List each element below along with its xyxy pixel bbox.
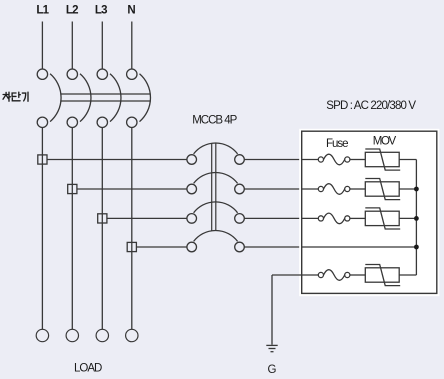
svg-text:MCCB 4P: MCCB 4P	[192, 114, 237, 126]
wire N top feed	[131, 22, 133, 69]
wire MOV1 to bus	[399, 159, 416, 161]
breaker pole L2: bottom contact circle	[67, 117, 77, 127]
junction dot row 2	[414, 187, 419, 192]
load terminal circle L3	[96, 329, 108, 341]
wire L2 top feed	[71, 22, 73, 69]
MCCB U1 pole 4 arc	[194, 230, 238, 241]
MCCB U1 pole 2 arc	[194, 172, 238, 183]
SPD row 5: wire from ground riser into fuse F4	[272, 274, 318, 276]
breaker pole L3: bottom contact circle	[97, 117, 107, 127]
tap square on L3	[98, 214, 107, 223]
breaker pole N: bottom contact circle	[127, 117, 137, 127]
MOV1 varistor stroke	[365, 149, 400, 170]
fuse F4 element (wave)	[324, 270, 345, 281]
MCCB U1 pole 1 left circle	[187, 155, 197, 165]
breaker pole L2: blade arc	[80, 74, 91, 122]
wire fuse F4 to MOV4	[350, 274, 365, 276]
wire fuse F2 to MOV2	[350, 188, 365, 190]
wire MCCB pole 3 to SPD box	[244, 217, 301, 219]
common bus (vertical)	[415, 160, 417, 276]
svg-text:Fuse: Fuse	[326, 138, 348, 150]
MOV3 body rectangle	[365, 211, 399, 225]
wire MCCB pole 2 to SPD box	[244, 188, 301, 190]
fuse F2 element (wave)	[324, 184, 345, 195]
wire tap L3 to MCCB pole 3	[107, 217, 187, 219]
SPD enclosure box white backing	[299, 129, 439, 296]
wire L2 riser to load	[71, 128, 73, 330]
ground symbol	[266, 345, 277, 351]
MCCB U1 pole 1 right circle	[235, 155, 245, 165]
fuse F3 right terminal circle	[345, 216, 350, 221]
fuse F1 right terminal circle	[345, 157, 350, 162]
MCCB U1 pole 3 left circle	[187, 214, 197, 224]
junction dot row 3	[414, 216, 419, 221]
tap square on L2	[68, 184, 77, 193]
breaker pole L1: blade arc	[50, 74, 61, 122]
fuse F3 left terminal circle	[318, 216, 323, 221]
MCCB U1 pole 3 right circle	[235, 214, 245, 224]
breaker pole L1: top contact circle	[37, 69, 47, 79]
MOV3 varistor stroke	[365, 208, 400, 229]
junction dot row 4	[414, 245, 419, 250]
breaker pole L3: blade arc	[110, 74, 121, 122]
SPD row 4: N through-wire to bus	[302, 246, 417, 248]
wire L3 top feed	[101, 22, 103, 69]
breaker 차단기 label (hand-drawn hangul strokes)	[3, 92, 28, 101]
MCCB U1 pole 4 right circle	[235, 242, 245, 252]
svg-text:N: N	[127, 5, 135, 17]
MCCB tie bars (double vertical)	[211, 143, 213, 231]
breaker pole L2: top contact circle	[67, 69, 77, 79]
svg-text:G: G	[268, 364, 277, 376]
SPD row 1: wire into fuse F1	[302, 159, 319, 161]
fuse F1 element (wave)	[324, 154, 345, 165]
MCCB U1 pole 1 arc	[194, 143, 238, 154]
wire tap L1 to MCCB pole 1	[47, 159, 187, 161]
fuse F3 element (wave)	[324, 213, 345, 224]
MOV2 body rectangle	[365, 182, 399, 196]
breaker pole N: top contact circle	[127, 69, 137, 79]
MCCB U1 pole 2 right circle	[235, 184, 245, 194]
MOV2 varistor stroke	[365, 179, 400, 200]
wire MOV3 to bus	[399, 217, 416, 219]
load terminal circle L1	[36, 329, 48, 341]
wire tap L2 to MCCB pole 2	[77, 188, 187, 190]
load terminal circle L2	[66, 329, 78, 341]
MOV1 body rectangle	[365, 152, 399, 166]
wire MOV4 to bus	[399, 274, 416, 276]
fuse F4 right terminal circle	[345, 272, 350, 277]
tap square on N	[127, 242, 136, 251]
wire L1 riser to load	[41, 128, 43, 330]
wire fuse F1 to MOV1	[350, 159, 365, 161]
breaker tie bar (double line)	[60, 93, 150, 95]
ground riser wire	[271, 275, 273, 345]
wire L1 top feed	[41, 22, 43, 69]
MCCB U1 pole 3 arc	[194, 202, 238, 213]
svg-text:L3: L3	[95, 5, 107, 17]
svg-text:SPD : AC 220/380 V: SPD : AC 220/380 V	[326, 100, 416, 112]
fuse F4 left terminal circle	[318, 272, 323, 277]
breaker pole N: blade arc	[140, 74, 151, 122]
wire fuse F3 to MOV3	[350, 217, 365, 219]
SPD enclosure box	[302, 131, 437, 293]
MCCB U1 pole 4 left circle	[187, 242, 197, 252]
fuse F2 right terminal circle	[345, 186, 350, 191]
breaker pole L1: bottom contact circle	[37, 117, 47, 127]
wire N riser to load	[131, 128, 133, 330]
wire tap N to MCCB pole 4	[136, 246, 187, 248]
fuse F2 left terminal circle	[318, 186, 323, 191]
MCCB U1 pole 2 left circle	[187, 184, 197, 194]
MOV4 varistor stroke	[365, 265, 400, 286]
wire MOV2 to bus	[399, 188, 416, 190]
wire MCCB pole 4 to SPD box	[244, 246, 301, 248]
SPD row 2: wire into fuse F2	[302, 188, 319, 190]
SPD row 3: wire into fuse F3	[302, 217, 319, 219]
svg-text:L2: L2	[66, 5, 78, 17]
tap square on L1	[38, 155, 47, 164]
MOV4 body rectangle	[365, 268, 399, 282]
load terminal circle N	[126, 329, 138, 341]
svg-text:L1: L1	[36, 5, 49, 17]
svg-text:MOV: MOV	[373, 136, 397, 148]
breaker pole L3: top contact circle	[97, 69, 107, 79]
svg-text:LOAD: LOAD	[74, 362, 102, 374]
wire MCCB pole 1 to SPD box	[244, 159, 301, 161]
wire L3 riser to load	[101, 128, 103, 330]
fuse F1 left terminal circle	[318, 157, 323, 162]
